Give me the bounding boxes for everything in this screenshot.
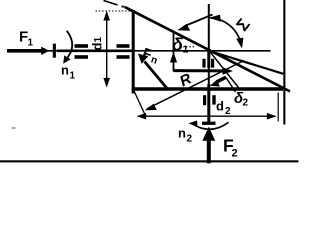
- beam mark dashes left pair: [75, 44, 89, 48]
- prism hypotenuse: [125, 7, 290, 91]
- border bottom: [0, 160, 299, 162]
- svg-text:2: 2: [187, 134, 193, 145]
- svg-text:1: 1: [28, 38, 34, 49]
- deflected ray b: [209, 51, 283, 74]
- label Sigma: [233, 15, 254, 35]
- arc Sigma: [210, 18, 241, 44]
- svg-text:d: d: [90, 43, 105, 51]
- extension line right: [277, 93, 279, 122]
- svg-text:d: d: [216, 99, 224, 114]
- thick direction arrow down-left: [217, 77, 226, 82]
- dimension d1 line: [106, 13, 108, 85]
- svg-text:2: 2: [243, 98, 249, 109]
- border right: [283, 0, 285, 125]
- force Fn arrow: [145, 62, 169, 90]
- dotted leader: [186, 46, 195, 48]
- extension line top (dotted): [96, 10, 133, 12]
- stray gray dash: [12, 127, 16, 129]
- beam bars upper pair: [202, 59, 205, 68]
- svg-text:n: n: [178, 126, 186, 141]
- internal refracted ray: [209, 50, 239, 87]
- svg-text:2: 2: [232, 148, 238, 160]
- svg-text:1: 1: [183, 44, 189, 56]
- wire optical axis: [7, 50, 271, 52]
- prism bottom edge: [132, 87, 283, 91]
- svg-text:2: 2: [225, 106, 231, 117]
- delta1 up arrowhead: [170, 52, 177, 63]
- tick on F1 line: [53, 44, 56, 58]
- label d1 (rotated): [90, 37, 105, 51]
- label Fn (rotated): [140, 46, 161, 67]
- beam bars lower pair: [203, 95, 206, 105]
- label R (rotated): [177, 70, 194, 90]
- svg-text:n: n: [61, 63, 69, 78]
- arc n2: [193, 122, 229, 129]
- dimension d2 line: [139, 115, 275, 117]
- delta1 leader arrow: [186, 15, 213, 26]
- prism left edge: [132, 10, 135, 94]
- tick on F2 line: [202, 122, 216, 125]
- force F1 arrow: [7, 47, 49, 55]
- thick direction arrow up-right: [174, 69, 224, 72]
- extension line slanted: [134, 92, 145, 116]
- ray R line with arrow: [147, 61, 244, 109]
- svg-text:1: 1: [93, 37, 104, 43]
- delta1 vertical line: [173, 32, 175, 72]
- vertical ray line: [208, 4, 210, 117]
- delta2 leader: [226, 78, 236, 93]
- beam mark dashes right pair: [117, 44, 130, 48]
- svg-text:1: 1: [70, 71, 76, 82]
- force F2 arrow: [207, 139, 211, 163]
- arc n1: [66, 31, 72, 59]
- dash-dot extension of hypotenuse: [104, 1, 118, 6]
